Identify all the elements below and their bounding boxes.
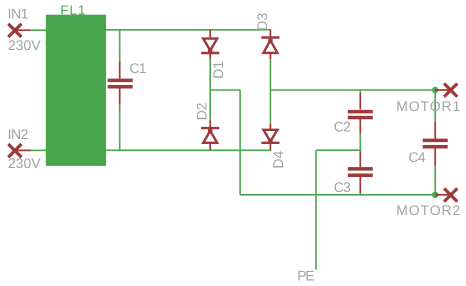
svg-text:C1: C1 xyxy=(129,60,146,76)
svg-text:IN1: IN1 xyxy=(8,6,29,22)
svg-text:MOTOR2: MOTOR2 xyxy=(396,202,461,218)
svg-text:D1: D1 xyxy=(210,61,226,79)
svg-text:C3: C3 xyxy=(334,179,351,195)
svg-text:IN2: IN2 xyxy=(8,126,29,142)
svg-text:D4: D4 xyxy=(270,150,286,168)
svg-text:D3: D3 xyxy=(254,13,270,31)
svg-text:230V: 230V xyxy=(8,37,41,53)
svg-text:D2: D2 xyxy=(194,102,210,120)
svg-text:MOTOR1: MOTOR1 xyxy=(396,98,461,114)
svg-text:FL1: FL1 xyxy=(60,3,86,18)
svg-text:PE: PE xyxy=(297,267,314,283)
svg-text:C2: C2 xyxy=(334,119,351,135)
svg-text:230V: 230V xyxy=(8,155,41,171)
svg-text:C4: C4 xyxy=(409,149,426,165)
